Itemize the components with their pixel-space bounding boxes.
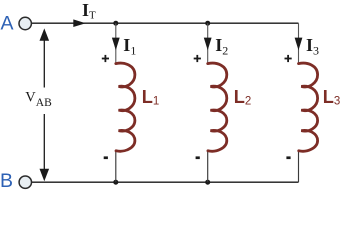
polarity plus L3 — [285, 55, 292, 62]
terminal A — [19, 17, 31, 29]
polarity plus L2 — [194, 55, 201, 62]
current arrow I3 — [295, 38, 303, 51]
wire branch 2 bottom stub — [207, 151, 209, 182]
current arrow I2 — [204, 38, 212, 51]
svg-text:A: A — [1, 13, 14, 35]
inductor L1 — [116, 63, 135, 151]
wire branch 3 bottom stub — [298, 151, 300, 182]
current arrow I1 — [112, 38, 120, 51]
polarity plus L1 — [102, 55, 109, 62]
terminal B — [19, 176, 31, 188]
voltage arrow VAB — [40, 28, 50, 181]
wire branch 1 top stub — [115, 23, 117, 63]
wire bottom — [32, 181, 299, 183]
inductor L2 — [208, 63, 227, 151]
polarity minus L3 — [286, 156, 290, 159]
polarity minus L1 — [104, 156, 108, 159]
inductor L3 — [299, 63, 318, 151]
wire branch 2 top stub — [207, 23, 209, 63]
polarity minus L2 — [196, 156, 200, 159]
current arrow IT — [73, 19, 85, 27]
node dot bottom 1 — [113, 180, 118, 185]
wire branch 1 bottom stub — [115, 151, 117, 182]
wire top — [32, 22, 299, 24]
node dot top 2 — [205, 21, 210, 26]
wire branch 3 top stub — [298, 23, 300, 63]
node dot top 1 — [113, 21, 118, 26]
svg-text:B: B — [0, 170, 13, 192]
node dot bottom 2 — [205, 180, 210, 185]
